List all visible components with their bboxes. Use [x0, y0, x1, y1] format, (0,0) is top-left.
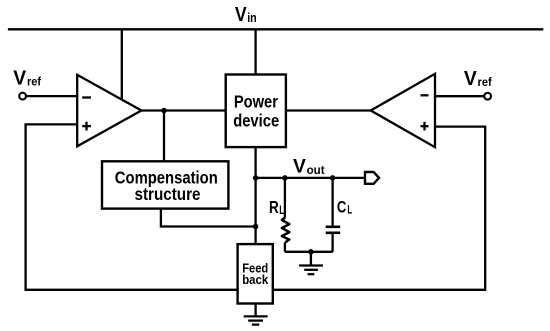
svg-text:V: V — [235, 3, 247, 26]
svg-text:V: V — [293, 157, 306, 178]
svg-text:device: device — [233, 110, 279, 130]
svg-text:ref: ref — [478, 75, 493, 89]
svg-text:back: back — [242, 272, 269, 287]
svg-text:out: out — [307, 163, 325, 177]
svg-text:V: V — [13, 67, 27, 89]
svg-text:ref: ref — [27, 75, 42, 89]
svg-text:V: V — [464, 68, 478, 90]
svg-text:C: C — [337, 198, 346, 216]
svg-text:in: in — [247, 11, 257, 25]
svg-text:structure: structure — [135, 184, 201, 204]
svg-text:L: L — [279, 205, 284, 217]
svg-text:Power: Power — [234, 92, 278, 112]
svg-text:R: R — [269, 197, 279, 217]
svg-text:L: L — [347, 205, 352, 217]
